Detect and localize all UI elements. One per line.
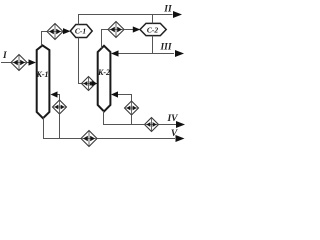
column K-1 — [37, 45, 50, 118]
wire: E6 down to bottoms line — [131, 115, 133, 125]
svg-text:К-1: К-1 — [35, 70, 48, 79]
wire: E5 down to bottoms line — [59, 114, 61, 139]
wire: C-2 top to II header junction — [152, 15, 154, 24]
heat exchanger E8 (stream IV cooler) — [145, 118, 159, 132]
wire: K-1 reboiler loop upper — [57, 95, 60, 101]
arrowhead stream II — [173, 11, 182, 18]
arrowhead reboiler return K-1 — [51, 91, 58, 97]
wire: K-2 overhead to E4 — [102, 30, 109, 49]
wire: E1 to K-1 — [27, 62, 30, 64]
svg-text:К-2: К-2 — [97, 68, 110, 77]
arrowhead into K-1 — [29, 59, 37, 65]
wire: E2 to C-1 — [63, 31, 64, 33]
svg-text:С-2: С-2 — [147, 26, 159, 35]
wire: E4 to C-2 — [124, 29, 134, 31]
svg-text:I: I — [2, 51, 7, 61]
wire: stream IV line — [159, 124, 176, 126]
arrowhead stream III — [175, 50, 184, 57]
heat exchanger E1 (feed heater) — [11, 55, 27, 71]
arrowhead into C-2 — [133, 26, 141, 32]
wire: K-2 bottoms to E8 — [104, 111, 145, 125]
svg-text:IV: IV — [166, 114, 178, 124]
wire: stream V line — [97, 138, 175, 140]
heat exchanger E5 (K-1 reboiler) — [53, 100, 67, 114]
svg-text:III: III — [159, 43, 171, 53]
condenser C-1 — [70, 25, 92, 38]
wire: C-2 bottom down to reflux / stream III tee — [118, 36, 174, 54]
svg-text:С-1: С-1 — [75, 27, 86, 36]
column K-2 — [98, 46, 111, 112]
arrowhead into K-2 feed — [92, 81, 98, 87]
heat exchanger E7 (stream V cooler) — [81, 131, 97, 147]
heat exchanger E4 (overhead cooler K-2) — [108, 22, 124, 38]
wire: K-1 overhead to E2 — [42, 32, 48, 46]
heat exchanger E3 (K-2 feed heater) — [82, 77, 96, 91]
arrowhead into C-1 — [63, 28, 71, 34]
arrowhead stream V — [176, 135, 185, 142]
arrowhead reboiler return K-2 — [111, 91, 118, 97]
svg-text:V: V — [171, 129, 178, 139]
condenser C-2 — [140, 23, 166, 35]
arrowhead stream IV — [176, 121, 185, 128]
wire: stream I feed line — [1, 62, 11, 64]
svg-text:II: II — [163, 5, 172, 15]
wire: C-1 top up and stream II header — [79, 15, 173, 25]
arrowhead reflux into K-2 — [111, 50, 119, 56]
wire: C-1 bottom down to E3 — [79, 38, 82, 84]
heat exchanger E2 (overhead cooler K-1) — [47, 24, 63, 40]
wire: K-1 bottoms to E7 — [44, 118, 82, 139]
wire: K-2 reboiler loop upper — [117, 95, 132, 102]
heat exchanger E6 (K-2 reboiler) — [125, 101, 139, 115]
